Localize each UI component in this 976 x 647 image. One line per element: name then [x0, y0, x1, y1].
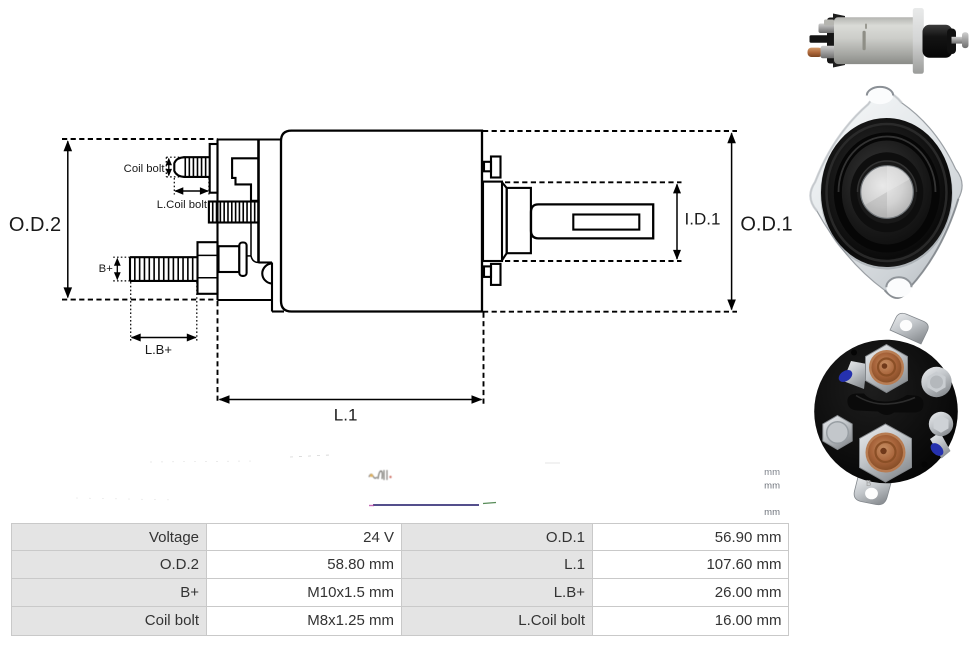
plunger end plate: [483, 182, 502, 261]
body bottom ledge: [272, 310, 284, 312]
photo2 bottom hole: [886, 277, 911, 297]
photo3 left hex bolt: [823, 416, 852, 450]
photo3 top copper terminal: [866, 345, 908, 393]
photo1 plunger rod: [952, 37, 965, 44]
flange bolt top washer: [484, 162, 491, 172]
O.D.2 dimension arrow: [67, 141, 69, 297]
bracket notch horizontal: [259, 261, 273, 263]
plunger rod slot: [573, 215, 639, 230]
bracket bottom edge: [218, 299, 273, 301]
O.D.1 dimension arrow: [731, 133, 733, 309]
svg-text:mm: mm: [764, 481, 780, 492]
bracket face right edge: [257, 140, 260, 263]
bracket fillet curve: [251, 256, 259, 263]
L.B+ dimension arrow: [132, 337, 196, 339]
B+ square plate: [219, 246, 240, 272]
photo1 black stud: [810, 35, 830, 43]
L.Coil bolt dimension arrow: [175, 190, 208, 192]
faint specks row: [290, 455, 330, 457]
watermark blue line: [373, 504, 479, 506]
bracket notch arc: [262, 263, 272, 283]
coil bolt diameter arrow: [168, 159, 170, 176]
bracket top edge: [218, 138, 282, 140]
photo2 flange shadow ring: [820, 119, 952, 270]
coil bolt tab: [210, 144, 218, 193]
coil bolt tip: [174, 157, 184, 177]
specification table: [11, 523, 789, 637]
photo1 copper stud: [808, 48, 823, 57]
O.D.1 top extension line: [483, 130, 737, 132]
flange bolt bottom washer: [484, 266, 491, 277]
plunger boot chamfer: [502, 182, 507, 260]
photo1 terminal block: [827, 18, 848, 64]
I.D.1 bottom extension line: [505, 260, 682, 262]
O.D.2 bottom extension line: [62, 299, 218, 301]
coil bolt thread: [184, 156, 210, 158]
I.D.1 top extension line: [505, 181, 682, 183]
B+ extension dotted lines: [113, 256, 130, 258]
photo3 bottom tab: [854, 477, 891, 505]
photo3 left silver tab: [843, 361, 867, 389]
photo 2: flange front view: [810, 87, 962, 298]
photo2 top hole: [867, 87, 893, 104]
bracket left edge: [216, 140, 218, 301]
photo1 cylinder: [834, 17, 918, 64]
flange bolt bottom stem: [491, 264, 501, 285]
photo1 boot: [923, 25, 953, 58]
photo3 bottom copper terminal: [860, 424, 912, 482]
photo2 flange plate: [810, 92, 962, 298]
bracket internal boss outline: [232, 158, 258, 201]
photo2 silver core: [861, 166, 914, 219]
B+ thread: [130, 256, 198, 258]
B+ diameter arrow: [116, 259, 118, 280]
svg-text:mm: mm: [764, 467, 780, 478]
photo 3: rear terminal view: [814, 313, 958, 504]
photo 1: solenoid side view: [808, 8, 969, 74]
plunger boot: [507, 188, 531, 253]
L.1 dimension arrow: [220, 399, 482, 401]
coil terminal threaded boss: [209, 202, 259, 223]
photo3 lower right nut and tab: [930, 432, 951, 459]
L.1 right extension line: [483, 313, 485, 405]
photo1 small nuts: [819, 24, 836, 34]
B+ collar washer: [239, 243, 246, 276]
plunger rod: [531, 204, 653, 238]
O.D.2 top extension line: [62, 138, 218, 140]
O.D.1 bottom extension line: [483, 311, 737, 313]
svg-text:mm: mm: [764, 507, 780, 518]
photo3 right round nut: [921, 367, 951, 397]
coil bolt extension dotted lines: [166, 156, 183, 158]
photo3 middle bar: [847, 394, 923, 416]
L.B+ extension dotted lines: [130, 282, 132, 342]
photo3 black body: [814, 340, 958, 484]
photo2 rubber disc: [821, 118, 952, 267]
coil wire channel: [250, 223, 252, 256]
photo3 top tab: [890, 313, 928, 344]
photo1 flange: [913, 8, 924, 74]
L.Coil bolt extension dotted lines: [173, 178, 175, 195]
solenoid body cylinder: [281, 131, 482, 312]
watermark logo speck: [369, 470, 392, 480]
I.D.1 dimension arrow: [676, 184, 678, 259]
flange bolt top stem: [491, 157, 501, 178]
B+ hex nut: [198, 242, 218, 294]
bracket notch vertical: [271, 263, 273, 312]
L.1 left extension line: [217, 301, 219, 404]
